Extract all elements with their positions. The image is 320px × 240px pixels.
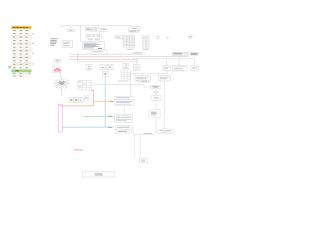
node F3 <box>149 110 161 118</box>
wire gray bus L2 <box>69 55 189 57</box>
node icon box B1 <box>100 65 106 70</box>
wire bottom connector <box>133 80 164 158</box>
node B4 <box>115 126 132 129</box>
label on bottom connector <box>144 133 153 134</box>
wire tree connector <box>133 55 195 66</box>
node wide bottom box <box>82 172 115 177</box>
node person box A <box>86 65 92 71</box>
node T2b <box>91 28 96 31</box>
node icon trio <box>69 98 83 103</box>
node small cross <box>166 37 170 39</box>
node mini table MT1 <box>78 81 91 91</box>
wire red bus riser <box>77 54 79 62</box>
node R1 <box>86 34 102 38</box>
node diamond <box>153 91 158 94</box>
node B2 <box>115 115 133 123</box>
node K1 small box <box>54 60 61 63</box>
wire gray bus L1 <box>69 53 143 55</box>
node B1a <box>115 97 134 100</box>
node icon box B2 <box>107 65 113 70</box>
column header row <box>11 29 31 32</box>
node pink signature box <box>53 67 62 72</box>
node mini table MT2 <box>121 70 130 79</box>
node C (top right stack) <box>129 26 140 30</box>
table data rows (alternating) <box>11 32 31 78</box>
wire K1 to pink box <box>57 62 59 65</box>
table header band <box>11 25 31 26</box>
node F2 <box>152 96 161 101</box>
legend text block <box>50 38 58 45</box>
node ellipse terminator <box>156 129 175 134</box>
row text marks <box>13 33 30 76</box>
node top tag boxes <box>140 80 148 82</box>
wire H2 connector <box>131 70 168 98</box>
wire blue horizontal <box>62 126 114 128</box>
wire magenta frame <box>58 104 62 132</box>
wire orange connector <box>94 100 115 102</box>
node MB2 <box>159 76 171 81</box>
wire R1 verticals <box>98 31 100 41</box>
label pink text <box>74 149 83 150</box>
node small dash pair <box>157 35 160 38</box>
wire drop from C <box>130 32 132 36</box>
node two tiny boxes <box>84 96 88 100</box>
node tree child C2 <box>172 66 187 71</box>
small annotations right of table <box>32 33 34 64</box>
label tiny text above line <box>118 80 129 83</box>
node icon box B3 <box>103 72 109 77</box>
wire: top horizontal connector <box>61 26 131 28</box>
node RT side tag <box>190 53 199 56</box>
wire pink box to star <box>60 72 62 79</box>
wire long gray from MT1 to flow F1 <box>91 84 151 87</box>
node person box C <box>123 64 129 69</box>
table body background <box>11 26 31 78</box>
node tree child C3 <box>191 66 199 71</box>
node T4 <box>102 28 108 31</box>
node light box D <box>134 65 141 71</box>
node MB1 <box>135 76 151 82</box>
node network star icon <box>54 78 70 90</box>
node T1 <box>67 29 75 31</box>
node bus label box <box>91 50 107 54</box>
node M2 <box>82 42 104 50</box>
wire: drop to legend area <box>71 26 99 42</box>
node RT parent <box>172 52 188 55</box>
label green line text <box>108 116 112 117</box>
node M1 <box>62 40 73 47</box>
node cell-row W1 <box>115 36 123 39</box>
node T2a <box>86 28 91 31</box>
node T3 <box>97 28 102 31</box>
wire flow verticals <box>155 82 157 134</box>
label green side note <box>8 65 12 68</box>
wire green line <box>83 115 114 117</box>
green highlight row <box>11 70 31 73</box>
wire red bus L3 <box>69 58 138 59</box>
node B1b <box>115 100 135 106</box>
node cell column stack 1 <box>123 36 135 48</box>
wire blue vertical <box>104 77 106 127</box>
node F1 <box>151 85 161 88</box>
table header label text <box>12 27 28 28</box>
label under stacks <box>127 48 134 51</box>
wire star down <box>60 89 62 96</box>
wire B column connectors <box>125 106 134 135</box>
wire red path <box>59 90 94 106</box>
node bottom small box <box>140 158 148 163</box>
node cell column stack 2 <box>142 36 149 48</box>
node B5 <box>116 130 132 133</box>
wire M2 to bus label <box>93 48 95 51</box>
wire red bus L4 <box>78 61 139 63</box>
node small tag right <box>188 36 192 37</box>
node tree child C1 <box>163 66 171 71</box>
